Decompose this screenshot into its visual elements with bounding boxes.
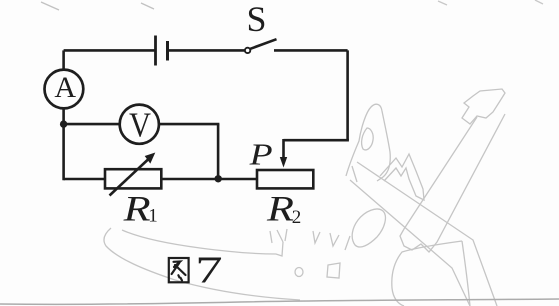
wire voltmeter branch down bbox=[217, 124, 220, 179]
svg-text:A: A bbox=[54, 71, 76, 104]
watermark bottom edge line bbox=[0, 299, 559, 304]
wiper arrowhead bbox=[280, 157, 287, 168]
watermark hook inner loop bbox=[362, 128, 374, 150]
resistor R1 box bbox=[105, 169, 161, 188]
battery long plate bbox=[154, 36, 157, 66]
watermark cross band bbox=[350, 162, 497, 306]
R1 arrowhead bbox=[145, 153, 156, 164]
wiper arrow stem bbox=[282, 139, 285, 158]
wire left vertical upper bbox=[62, 50, 65, 70]
watermark W zigzag bbox=[380, 154, 424, 200]
wire R1 to R2 bbox=[161, 178, 257, 181]
watermark top dash 2 bbox=[141, 3, 154, 9]
voltmeter circle bbox=[120, 105, 159, 144]
watermark small dashes near R2 bbox=[270, 166, 357, 250]
watermark top dash 3 bbox=[438, 1, 447, 5]
wire right vertical bbox=[346, 50, 349, 140]
svg-text:P: P bbox=[248, 137, 272, 172]
watermark bottom curve 1 bbox=[104, 228, 300, 300]
battery short plate bbox=[166, 41, 169, 61]
switch lever bbox=[250, 39, 276, 49]
svg-text:R: R bbox=[122, 188, 150, 228]
watermark hook shape bbox=[346, 104, 390, 181]
watermark leaf oval bbox=[352, 209, 385, 247]
watermark small circle bbox=[295, 268, 303, 277]
watermark top dash 4 bbox=[535, 0, 543, 4]
resistor R2 box bbox=[257, 170, 313, 188]
watermark big stroke notch bbox=[462, 89, 505, 124]
wire switch to right corner bbox=[274, 49, 348, 52]
wire left vertical lower bbox=[62, 109, 65, 181]
wire bottom left bbox=[64, 178, 106, 181]
watermark bottom-right blob bbox=[392, 241, 470, 306]
caption 图 (drawn) bbox=[169, 258, 189, 282]
svg-text:R: R bbox=[266, 188, 294, 228]
svg-text:1: 1 bbox=[148, 206, 158, 227]
watermark top-left dash bbox=[41, 2, 59, 10]
watermark bottom curve 2 bbox=[122, 230, 283, 256]
wire voltmeter right bbox=[159, 123, 220, 126]
wire top left bbox=[64, 49, 155, 52]
svg-text:7: 7 bbox=[195, 250, 223, 292]
wire battery to switch bbox=[169, 49, 245, 52]
wire to voltmeter bbox=[64, 123, 120, 126]
watermark big stroke band bbox=[400, 114, 505, 252]
junction dot right bbox=[215, 175, 222, 182]
svg-text:2: 2 bbox=[292, 207, 302, 228]
ammeter circle bbox=[45, 70, 84, 109]
R1 arrow bbox=[110, 160, 149, 196]
junction dot left bbox=[60, 120, 67, 127]
watermark small diamond bbox=[327, 263, 340, 278]
svg-text:V: V bbox=[129, 105, 151, 144]
switch pivot circle bbox=[245, 48, 250, 53]
svg-text:S: S bbox=[247, 0, 267, 39]
wire to wiper bbox=[284, 139, 349, 142]
